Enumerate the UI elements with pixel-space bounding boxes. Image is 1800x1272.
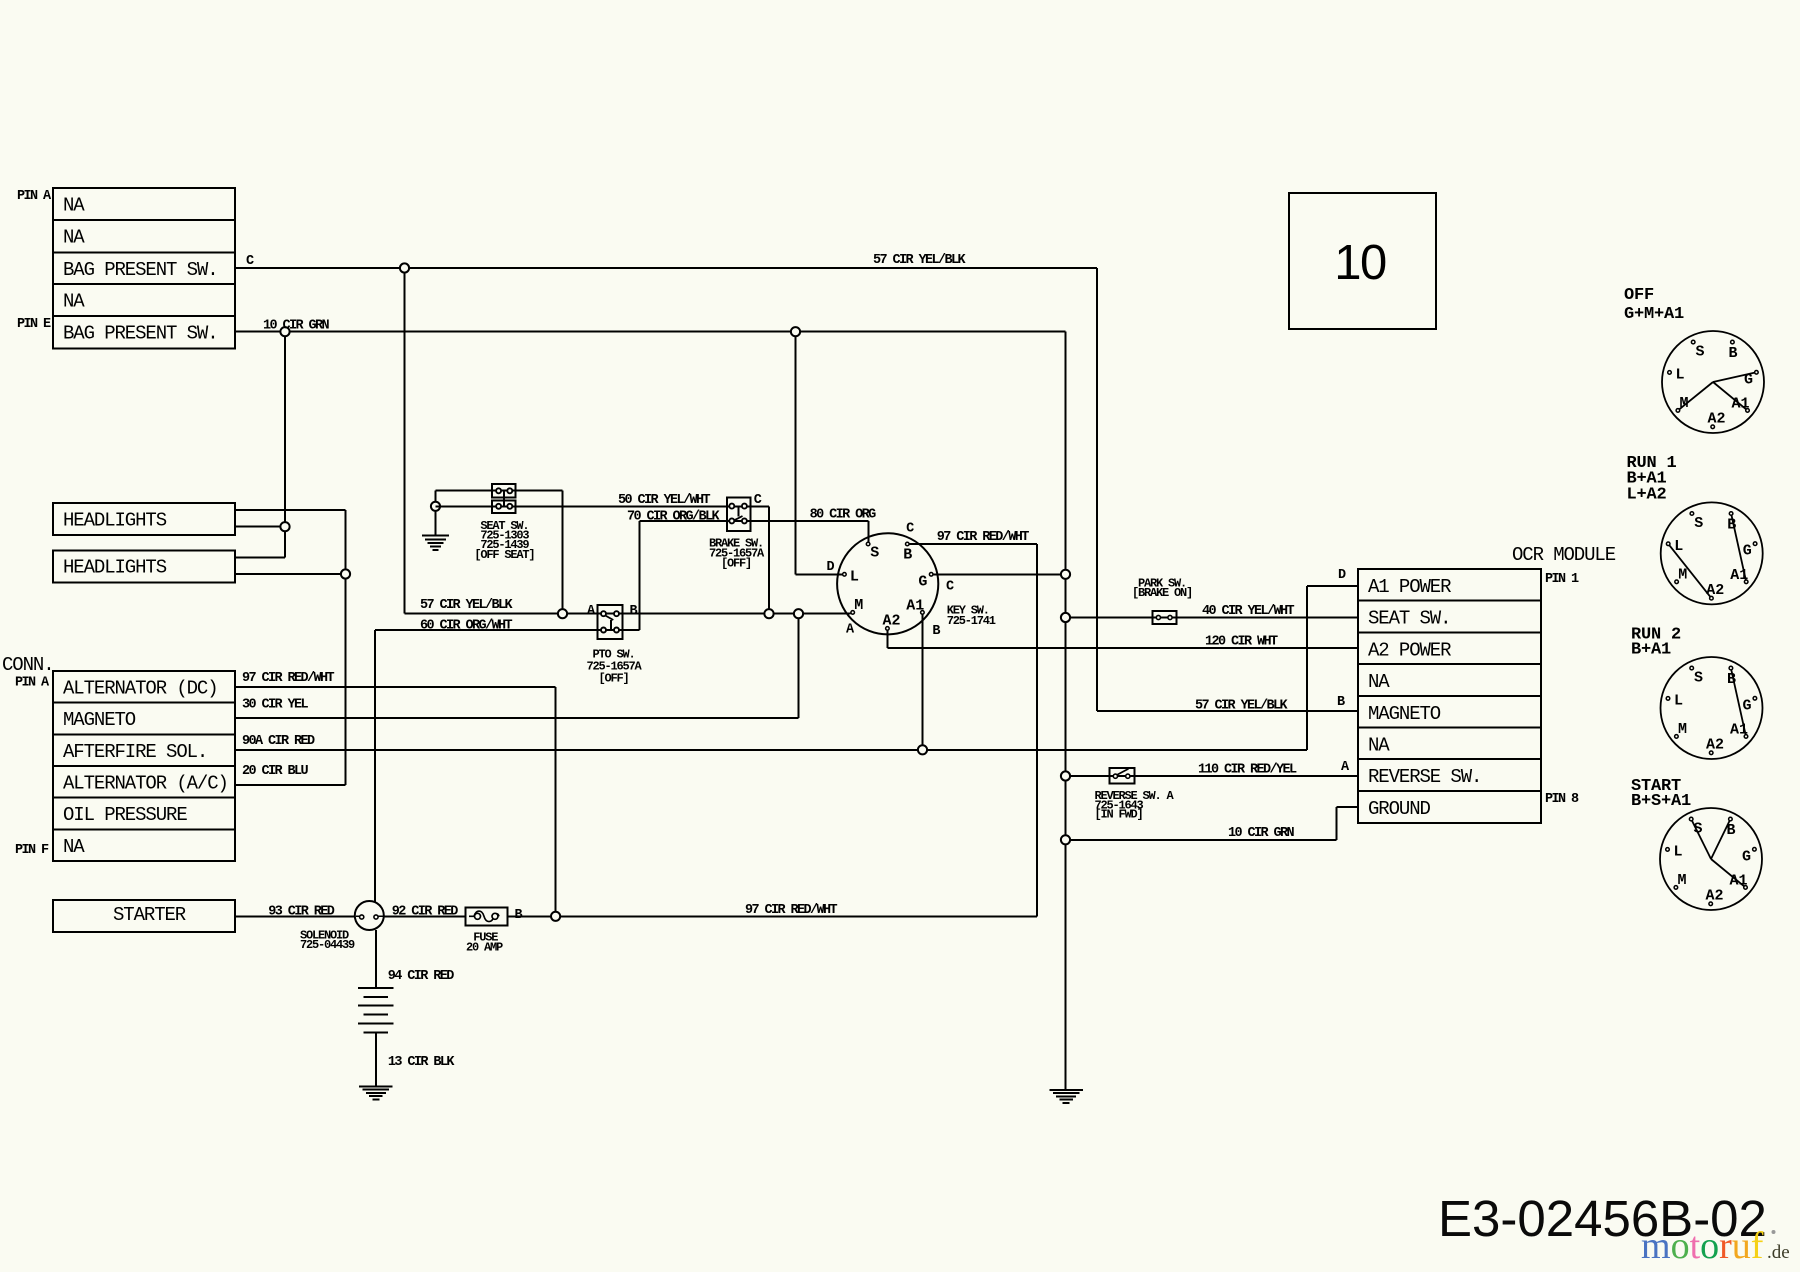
wire seat switch right branch down (562, 491, 564, 614)
seat switch S1 (492, 484, 516, 497)
svg-text:A1: A1 (1729, 873, 1747, 890)
svg-text:AFTERFIRE SOL.: AFTERFIRE SOL. (63, 741, 207, 763)
key position diagram START (1660, 808, 1762, 910)
svg-text:57 CIR YEL/BLK: 57 CIR YEL/BLK (873, 253, 967, 268)
wire 20 CIR BLU (headlight power) (235, 509, 346, 511)
ground (battery) (359, 1085, 393, 1087)
svg-text:20 CIR BLU: 20 CIR BLU (242, 764, 309, 779)
wire 120 CIR WHT (key A2 to OCR) (887, 631, 889, 649)
svg-text:S: S (1695, 344, 1704, 361)
wire 60 CIR ORG/WHT (375, 629, 640, 631)
svg-text:120 CIR WHT: 120 CIR WHT (1205, 635, 1278, 650)
node A1 junction (918, 745, 927, 754)
reverse switch S6 (1109, 768, 1134, 783)
svg-text:MAGNETO: MAGNETO (1368, 703, 1441, 725)
svg-text:ALTERNATOR (A/C): ALTERNATOR (A/C) (63, 773, 228, 795)
key switch pin B (906, 542, 910, 546)
wire L terminal branch (795, 332, 797, 575)
svg-text:80 CIR ORG: 80 CIR ORG (810, 508, 877, 523)
brake switch S2 (727, 497, 751, 531)
wire 30 CIR YEL (magneto) (235, 717, 799, 719)
wire 97 CIR RED/WHT (alternator DC) (235, 686, 556, 688)
svg-text:L: L (1674, 538, 1683, 555)
svg-text:REVERSE SW.: REVERSE SW. (1368, 766, 1481, 788)
svg-text:A1: A1 (906, 598, 924, 615)
svg-text:NA: NA (1368, 671, 1390, 693)
wire bag C branch down to PTO A (404, 268, 406, 614)
wire headlight return branch (284, 332, 286, 558)
svg-text:motoruf: motoruf (1641, 1225, 1764, 1267)
svg-text:A1: A1 (1731, 396, 1749, 413)
svg-text:NA: NA (1368, 735, 1390, 757)
connector block J2 (engine harness CONN.) (53, 671, 235, 861)
svg-text:L: L (1674, 692, 1683, 709)
svg-text:G: G (1744, 371, 1753, 388)
headlight HL2 (53, 551, 235, 583)
key switch pin M (851, 611, 855, 615)
svg-text:60 CIR ORG/WHT: 60 CIR ORG/WHT (420, 619, 513, 634)
key switch pin S (866, 542, 870, 546)
svg-text:A1: A1 (1730, 567, 1748, 584)
wire 93 CIR RED (starter) (235, 915, 356, 917)
starter M1 (53, 900, 235, 932)
ground (seat switch) (422, 535, 449, 537)
svg-text:G: G (918, 573, 927, 590)
node alternator/battery junction (551, 912, 560, 921)
svg-text:L: L (1675, 366, 1684, 383)
svg-text:G+M+A1: G+M+A1 (1624, 305, 1684, 324)
svg-text:M: M (1678, 721, 1687, 738)
key switch pin A1 (921, 611, 925, 615)
svg-text:NA: NA (63, 291, 85, 313)
svg-text:50 CIR YEL/WHT: 50 CIR YEL/WHT (618, 493, 711, 508)
svg-text:S: S (1693, 821, 1702, 838)
svg-text:OCR MODULE: OCR MODULE (1512, 544, 1616, 566)
node L branch (791, 327, 800, 336)
svg-text:40 CIR YEL/WHT: 40 CIR YEL/WHT (1202, 604, 1295, 619)
svg-text:90A CIR RED: 90A CIR RED (242, 734, 315, 749)
svg-text:MAGNETO: MAGNETO (63, 709, 136, 731)
svg-text:B: B (1726, 822, 1735, 839)
svg-text:B+A1: B+A1 (1631, 641, 1671, 660)
svg-text:97 CIR RED/WHT: 97 CIR RED/WHT (242, 671, 335, 686)
svg-text:97 CIR RED/WHT: 97 CIR RED/WHT (745, 903, 838, 918)
svg-text:HEADLIGHTS: HEADLIGHTS (63, 510, 167, 532)
solenoid K1 (355, 901, 384, 930)
svg-text:NA: NA (63, 195, 85, 217)
svg-text:725-04439: 725-04439 (300, 938, 355, 952)
svg-text:94 CIR RED: 94 CIR RED (388, 969, 455, 984)
node seat switch left (431, 502, 440, 511)
svg-text:S: S (1694, 515, 1703, 532)
wire 90A CIR RED / A1 line (235, 749, 1307, 751)
svg-text:B: B (1728, 345, 1737, 362)
ground (chassis bus) (1049, 1089, 1083, 1091)
svg-text:[OFF]: [OFF] (598, 672, 628, 686)
svg-text:B+S+A1: B+S+A1 (1631, 792, 1691, 811)
svg-text:OIL PRESSURE: OIL PRESSURE (63, 804, 187, 826)
PTO switch S3 (598, 605, 623, 639)
key position diagram RUN 1 (1661, 502, 1763, 604)
svg-text:OFF: OFF (1624, 286, 1654, 305)
svg-text:BAG PRESENT SW.: BAG PRESENT SW. (63, 322, 218, 344)
key position diagram OFF (1662, 331, 1764, 433)
wire 10 CIR GRN (bag E / ground bus) (235, 331, 1066, 333)
svg-text:L: L (850, 569, 859, 586)
node magneto junction (794, 609, 803, 618)
node on bag C wire (400, 263, 409, 272)
svg-text:725-1741: 725-1741 (947, 614, 996, 628)
node park junction (1061, 613, 1070, 622)
svg-text:10: 10 (1334, 236, 1386, 290)
node headlight return (280, 327, 289, 336)
svg-text:BAG PRESENT SW.: BAG PRESENT SW. (63, 259, 218, 281)
svg-text:A2: A2 (1706, 737, 1724, 754)
svg-text:PIN 8: PIN 8 (1545, 792, 1579, 807)
key switch pin L (843, 573, 847, 577)
wire 50 CIR YEL/WHT (436, 505, 770, 507)
svg-text:S: S (1694, 670, 1703, 687)
svg-text:57 CIR YEL/BLK: 57 CIR YEL/BLK (420, 598, 514, 613)
svg-text:92 CIR RED: 92 CIR RED (392, 905, 459, 920)
node brake C junction (764, 609, 773, 618)
svg-text:PIN A: PIN A (17, 189, 52, 204)
wire 70 CIR ORG/BLK (639, 521, 641, 630)
svg-text:10 CIR GRN: 10 CIR GRN (263, 319, 330, 334)
svg-text:[OFF]: [OFF] (721, 557, 751, 571)
node seat/PTO junction (558, 609, 567, 618)
svg-text:HEADLIGHTS: HEADLIGHTS (63, 557, 167, 579)
fuse F1 20 AMP (466, 907, 508, 925)
battery BT1 (358, 987, 394, 989)
svg-text:M: M (1677, 872, 1686, 889)
svg-text:B: B (903, 546, 912, 563)
svg-text:10 CIR GRN: 10 CIR GRN (1228, 826, 1295, 841)
svg-text:A2: A2 (882, 612, 900, 629)
svg-text:A2: A2 (1707, 411, 1725, 428)
svg-text:A2: A2 (1705, 888, 1723, 905)
svg-text:PIN 1: PIN 1 (1545, 572, 1579, 587)
svg-text:.de: .de (1767, 1242, 1790, 1263)
svg-text:A2 POWER: A2 POWER (1368, 639, 1451, 661)
headlight HL1 (53, 503, 235, 535)
svg-text:70 CIR ORG/BLK: 70 CIR ORG/BLK (627, 510, 721, 525)
wire 40 CIR YEL/WHT (park switch) (1066, 617, 1359, 619)
wire brake C to M line (768, 506, 770, 613)
svg-text:G: G (1742, 848, 1751, 865)
wire 57 CIR YEL/BLK (bag C to magneto row) (235, 267, 1097, 269)
svg-text:G: G (1743, 543, 1752, 560)
svg-text:GROUND: GROUND (1368, 798, 1431, 820)
svg-text:A1: A1 (1730, 722, 1748, 739)
svg-text:13 CIR BLK: 13 CIR BLK (388, 1055, 456, 1070)
wire 97 CIR RED/WHT (key B to battery) (909, 543, 1037, 545)
page reference box 10 (1289, 193, 1436, 329)
svg-text:57 CIR YEL/BLK: 57 CIR YEL/BLK (1195, 699, 1289, 714)
svg-text:97 CIR RED/WHT: 97 CIR RED/WHT (937, 530, 1030, 545)
svg-text:[IN FWD]: [IN FWD] (1095, 808, 1143, 822)
svg-text:SEAT SW.: SEAT SW. (1368, 608, 1450, 630)
svg-text:A2: A2 (1706, 582, 1724, 599)
svg-text:[BRAKE ON]: [BRAKE ON] (1132, 586, 1192, 600)
key switch pin A2 (886, 627, 890, 631)
svg-text:M: M (854, 597, 863, 614)
park switch S5 (1153, 611, 1177, 624)
wire 10 CIR GRN to OCR GROUND (1066, 839, 1337, 841)
svg-text:30 CIR YEL: 30 CIR YEL (242, 698, 309, 713)
svg-text:S: S (870, 544, 879, 561)
svg-text:PIN A: PIN A (15, 676, 50, 691)
wire seat switch left to ground (436, 490, 563, 492)
wire 92 CIR RED (solenoid to fuse) (384, 915, 467, 917)
svg-text:A1 POWER: A1 POWER (1368, 576, 1451, 598)
svg-text:L: L (1673, 843, 1682, 860)
svg-text:CONN.: CONN. (2, 654, 54, 676)
svg-text:ALTERNATOR (DC): ALTERNATOR (DC) (63, 678, 218, 700)
svg-text:NA: NA (63, 836, 85, 858)
svg-text:110 CIR RED/YEL: 110 CIR RED/YEL (1198, 763, 1297, 778)
connector block J1 (bag/seat harness) (53, 188, 235, 348)
wire 13 CIR BLK (battery negative) (375, 1032, 377, 1086)
svg-text:L+A2: L+A2 (1627, 485, 1667, 504)
OCR module U1 (1358, 569, 1541, 823)
wire 97 CIR RED/WHT (fuse to key B riser) (508, 915, 1037, 917)
wire 110 CIR RED/YEL (reverse switch) (1066, 775, 1359, 777)
wire A1 POWER riser (1306, 586, 1308, 750)
node reverse junction (1061, 771, 1070, 780)
svg-text:NA: NA (63, 227, 85, 249)
node ground bus bottom (1061, 835, 1070, 844)
svg-text:M: M (1678, 567, 1687, 584)
node G junction (1061, 570, 1070, 579)
key switch S4 (837, 533, 938, 634)
node headlight power (341, 569, 350, 578)
svg-text:B: B (1727, 671, 1736, 688)
svg-text:20 AMP: 20 AMP (466, 940, 503, 954)
svg-text:B: B (1727, 517, 1736, 534)
svg-text:G: G (1742, 697, 1751, 714)
key position diagram RUN 2 (1661, 657, 1763, 759)
svg-text:STARTER: STARTER (113, 904, 186, 926)
wire 80 CIR ORG (brake to S) (640, 520, 869, 522)
wire key A1 branch (922, 615, 924, 750)
wire 94 CIR RED (battery positive) (375, 930, 377, 988)
wire solenoid feed vertical (374, 630, 376, 901)
svg-text:PIN E: PIN E (17, 317, 51, 332)
wire key G to ground bus (933, 573, 1065, 575)
key switch pin G (929, 573, 933, 577)
svg-text:93 CIR RED: 93 CIR RED (268, 905, 335, 920)
svg-text:M: M (1679, 395, 1688, 412)
svg-text:PIN F: PIN F (15, 843, 49, 858)
svg-text:[OFF SEAT]: [OFF SEAT] (474, 548, 534, 562)
